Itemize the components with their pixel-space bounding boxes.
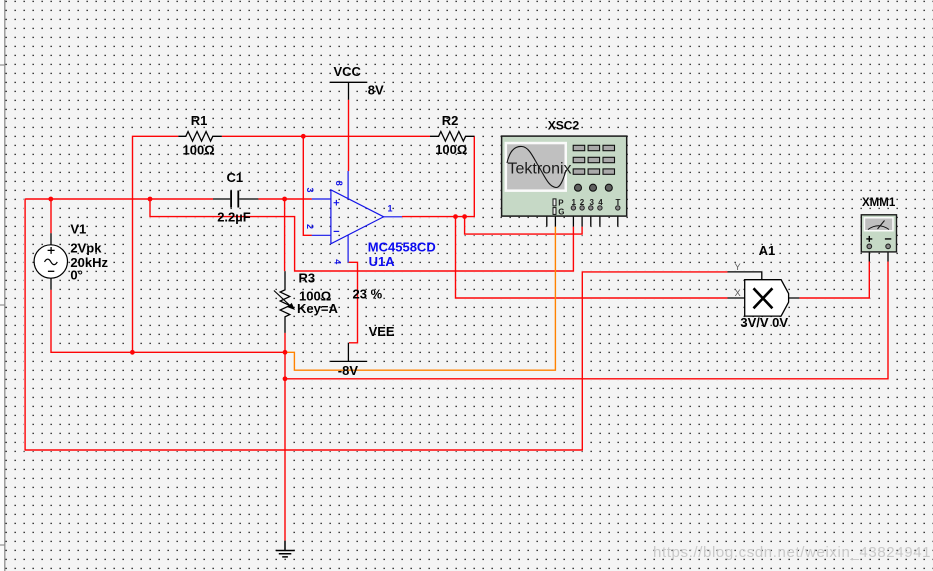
svg-text:3V/V 0V: 3V/V 0V — [740, 315, 788, 330]
svg-text:T: T — [616, 198, 621, 207]
svg-text:100Ω: 100Ω — [183, 142, 215, 157]
svg-text:Key=A: Key=A — [297, 301, 338, 316]
svg-text:2Vpk: 2Vpk — [70, 241, 102, 256]
svg-text:4: 4 — [333, 259, 343, 264]
svg-text:VCC: VCC — [334, 64, 362, 79]
svg-text:3: 3 — [590, 198, 595, 207]
svg-text:P: P — [558, 198, 564, 207]
svg-text:G: G — [558, 208, 564, 217]
svg-text:https://blog.csdn.net/weixin_4: https://blog.csdn.net/weixin_43824941 — [653, 544, 931, 561]
svg-text:100Ω: 100Ω — [435, 142, 467, 157]
svg-text:8: 8 — [334, 181, 344, 186]
svg-text:R1: R1 — [191, 113, 208, 128]
svg-text:1: 1 — [572, 198, 577, 207]
svg-text:V1: V1 — [70, 221, 86, 236]
svg-text:A1: A1 — [759, 243, 776, 258]
svg-text:2: 2 — [580, 198, 585, 207]
svg-text:XMM1: XMM1 — [862, 197, 896, 209]
svg-text:U1A: U1A — [369, 254, 396, 269]
svg-text:3: 3 — [305, 188, 315, 193]
svg-text:R2: R2 — [442, 113, 459, 128]
svg-text:Y: Y — [735, 262, 741, 272]
svg-text:2: 2 — [305, 224, 315, 229]
svg-text:8V: 8V — [368, 83, 384, 98]
svg-text:C1: C1 — [227, 170, 244, 185]
svg-text:X: X — [735, 288, 741, 298]
svg-text:XSC2: XSC2 — [548, 118, 580, 132]
svg-text:1: 1 — [388, 204, 393, 214]
svg-text:23 %: 23 % — [353, 287, 383, 302]
svg-text:-8V: -8V — [338, 363, 359, 378]
svg-text:4: 4 — [598, 198, 603, 207]
svg-text:R3: R3 — [299, 270, 316, 285]
svg-text:0°: 0° — [70, 268, 82, 283]
svg-text:VEE: VEE — [369, 324, 395, 339]
svg-text:Tektronix: Tektronix — [508, 160, 572, 177]
svg-text:2.2µF: 2.2µF — [217, 210, 251, 225]
svg-text:MC4558CD: MC4558CD — [368, 239, 436, 254]
